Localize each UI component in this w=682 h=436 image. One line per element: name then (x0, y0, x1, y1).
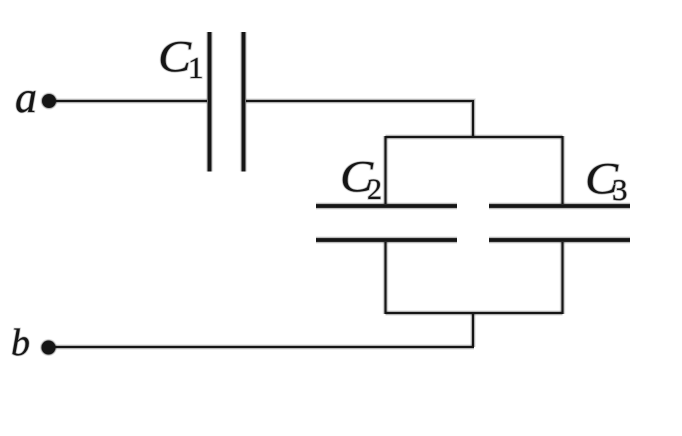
capacitor C2 top plate (316, 202, 457, 209)
label b (11, 322, 30, 364)
svg-text:2: 2 (367, 173, 382, 206)
wire from box bottom down to b line (470, 312, 476, 347)
wire top side of parallel box (386, 134, 563, 140)
svg-text:a: a (15, 73, 37, 122)
wire from C1 right plate to top node corner at x=473 (246, 101, 473, 137)
svg-text:1: 1 (188, 50, 204, 85)
node a terminal dot (40, 92, 57, 109)
label C2 (340, 152, 382, 206)
label C1 (158, 32, 204, 85)
svg-text:C: C (158, 32, 192, 81)
capacitor C1 right plate (240, 32, 247, 172)
wire bottom side of parallel box (386, 310, 563, 316)
node b terminal dot (40, 339, 57, 356)
wire from node b to junction below box (53, 344, 474, 350)
wire left side of box, upper segment into C2 (383, 136, 389, 204)
wire from node a to C1 left plate (53, 98, 207, 104)
capacitor C3 top plate (489, 202, 630, 209)
label a (15, 73, 37, 122)
svg-text:b: b (11, 322, 30, 364)
wire left side of box, lower segment from C2 (383, 242, 389, 314)
wire right side of box, lower segment from C3 (560, 242, 566, 314)
capacitor C3 bottom plate (489, 236, 630, 243)
capacitor C1 left plate (206, 32, 213, 172)
svg-text:3: 3 (612, 172, 628, 207)
wire right side of box, upper segment into C3 (560, 136, 566, 204)
label C3 (585, 154, 628, 207)
capacitor C2 bottom plate (316, 236, 457, 243)
